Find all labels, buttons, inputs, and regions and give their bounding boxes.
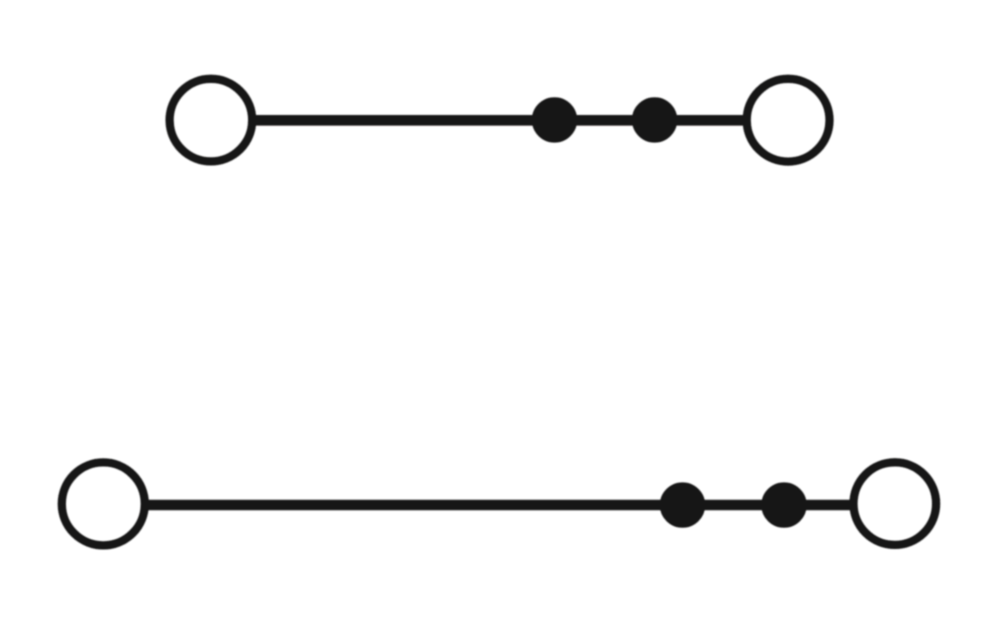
wire (upper level, terminal 1 to terminal 2) [253, 115, 745, 126]
junction dot B2 (lower level bridge position, right) [766, 487, 801, 522]
terminal point 3 (lower level, left) [62, 462, 145, 545]
junction dot A2 (upper level bridge position, right) [637, 102, 672, 137]
junction dot B1 (lower level bridge position, left) [665, 487, 700, 522]
wire (lower level, terminal 3 to terminal 4) [146, 500, 852, 511]
terminal point 1 (upper level, left) [170, 79, 253, 162]
junction dot A1 (upper level bridge position, left) [537, 102, 572, 137]
terminal point 4 (lower level, right) [854, 462, 937, 545]
terminal point 2 (upper level, right) [747, 79, 830, 162]
